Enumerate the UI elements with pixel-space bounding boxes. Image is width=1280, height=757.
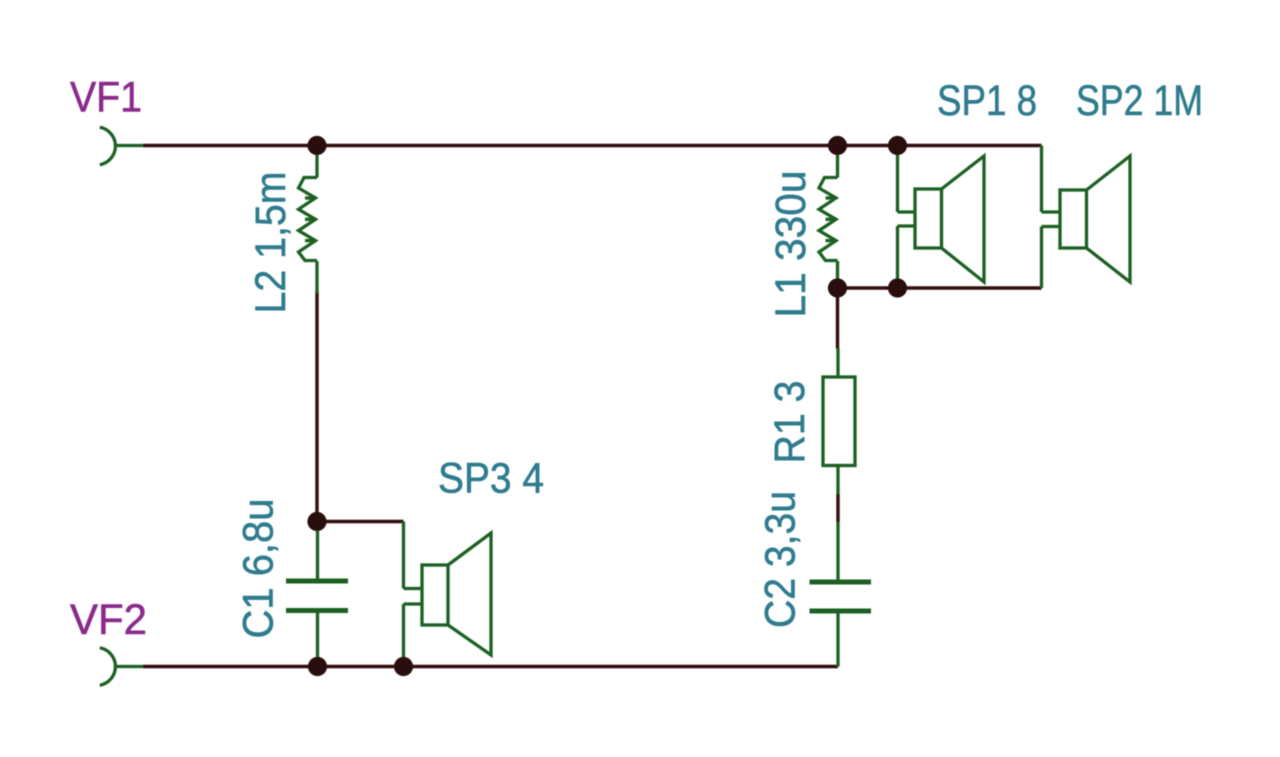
inductor L1 — [819, 146, 838, 289]
wire bottom horizontal — [143, 665, 838, 668]
svg-text:R1 3: R1 3 — [767, 381, 814, 464]
junction top-SP1 — [888, 136, 907, 155]
svg-text:C2 3,3u: C2 3,3u — [758, 491, 805, 628]
svg-text:L1 330u: L1 330u — [768, 171, 815, 318]
wire L1 to R1 — [836, 288, 839, 349]
wire top horizontal — [143, 144, 1042, 147]
terminal VF2 — [100, 648, 143, 685]
junction L1-R1 — [828, 278, 847, 297]
junction SP1-bottom — [888, 278, 907, 297]
wire L2 lower vertical — [315, 291, 318, 522]
terminal VF1 — [100, 127, 143, 164]
svg-text:VF2: VF2 — [70, 597, 147, 644]
inductor L2 — [299, 146, 318, 294]
wire L1 bottom horizontal — [838, 286, 1042, 289]
capacitor C1 — [286, 522, 348, 667]
junction top-L2 — [307, 136, 326, 155]
wire node A to SP3 — [317, 520, 404, 523]
junction bottom-C1 — [308, 657, 327, 676]
svg-text:C1 6,8u: C1 6,8u — [236, 499, 283, 639]
speaker SP3 — [404, 522, 492, 667]
wire R1 to C2 — [836, 494, 839, 522]
capacitor C2 — [810, 522, 872, 667]
svg-text:VF1: VF1 — [70, 75, 142, 122]
svg-text:SP3 4: SP3 4 — [438, 456, 544, 503]
junction node A — [307, 512, 326, 531]
speaker SP2 — [1042, 146, 1131, 289]
junction bottom-SP3 — [394, 657, 413, 676]
svg-text:L2 1,5m: L2 1,5m — [248, 172, 295, 314]
svg-text:SP1 8: SP1 8 — [937, 78, 1037, 125]
speaker SP1 — [898, 146, 985, 289]
resistor R1 — [823, 349, 855, 495]
junction top-L1 — [828, 136, 847, 155]
svg-text:SP2 1M: SP2 1M — [1076, 78, 1203, 125]
